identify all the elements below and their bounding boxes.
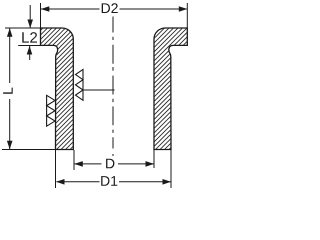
L dimension xyxy=(2,28,74,150)
L2 arrow up xyxy=(27,46,33,55)
L bottom extension line xyxy=(2,149,74,151)
D1 dimension xyxy=(56,150,172,188)
L label xyxy=(3,88,13,94)
D arrow right xyxy=(146,161,155,167)
L2 lower arrow tail xyxy=(29,46,31,60)
L arrow top xyxy=(7,28,13,37)
D extension line left xyxy=(73,150,75,170)
D2 dimension line xyxy=(41,8,100,10)
L top extension line xyxy=(5,27,41,29)
lip leader line xyxy=(83,89,115,91)
L2 arrow down xyxy=(27,20,33,29)
L2 label xyxy=(22,32,37,43)
left outer lip triangles xyxy=(47,95,55,126)
left seal half cross-section xyxy=(41,28,74,150)
L arrow bottom xyxy=(7,141,13,150)
D arrow left xyxy=(74,161,83,167)
right half hatching xyxy=(29,20,317,155)
L2 dimension xyxy=(18,5,40,60)
D1 extension line right xyxy=(170,150,172,188)
D extension line right xyxy=(153,150,155,168)
D1 label xyxy=(101,176,117,186)
L2 bottom extension line xyxy=(18,45,40,47)
D1 extension line left xyxy=(55,150,57,188)
left half hatching xyxy=(0,20,204,155)
D2 arrow left xyxy=(41,6,50,12)
D1 arrow left xyxy=(56,179,65,185)
D dimension line xyxy=(75,163,102,165)
D1 arrow right xyxy=(163,179,172,185)
D1 dimension line xyxy=(57,181,100,183)
right seal half cross-section xyxy=(154,28,187,150)
D2 extension line left xyxy=(40,3,42,28)
L2 upper arrow tail xyxy=(29,5,31,28)
L dimension line xyxy=(9,29,11,84)
centerline xyxy=(112,17,114,157)
D dimension xyxy=(74,150,154,170)
D2 label xyxy=(102,3,118,13)
D2 arrow right xyxy=(179,6,188,12)
right inner lip triangles xyxy=(76,69,84,100)
D2 extension line right xyxy=(186,3,188,28)
D label xyxy=(106,159,114,169)
D2 dimension xyxy=(41,3,188,28)
